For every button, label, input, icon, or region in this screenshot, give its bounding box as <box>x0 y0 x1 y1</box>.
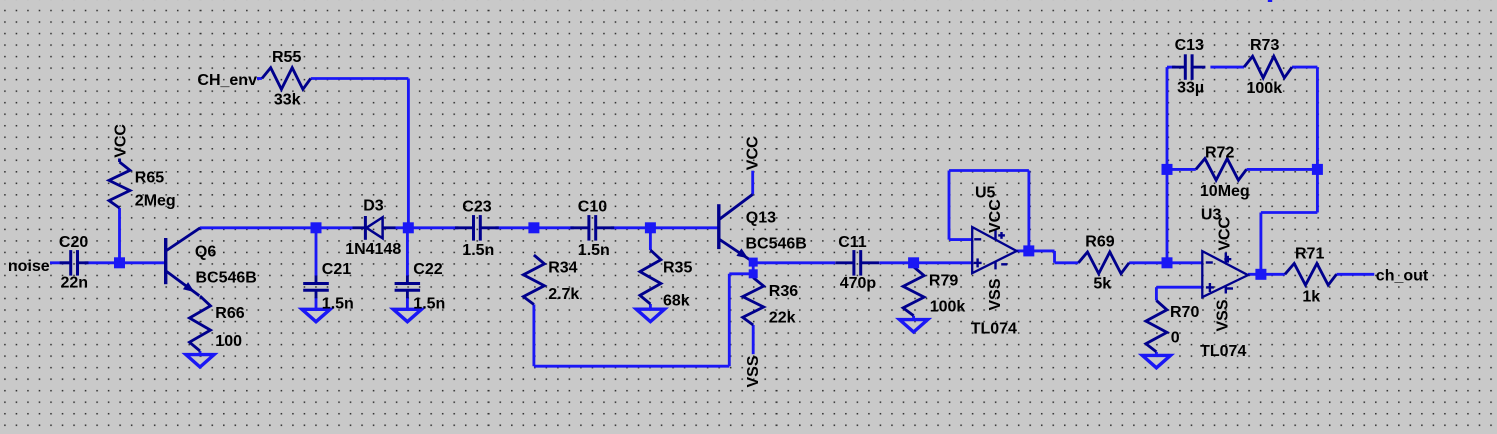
svg-text:1.5n: 1.5n <box>578 242 610 259</box>
wire <box>752 263 755 278</box>
node <box>908 257 919 268</box>
svg-text:R79: R79 <box>929 272 958 289</box>
svg-text:noise: noise <box>8 258 50 275</box>
svg-text:22k: 22k <box>769 310 796 327</box>
svg-text:TL074: TL074 <box>1200 343 1246 360</box>
svg-text:68k: 68k <box>663 293 690 310</box>
wire <box>407 79 410 228</box>
wire <box>118 208 121 263</box>
svg-text:R65: R65 <box>135 169 164 186</box>
svg-text:R36: R36 <box>769 283 798 300</box>
resistor R66 <box>190 296 211 351</box>
resistor R35 <box>640 250 661 304</box>
wire <box>200 226 316 229</box>
svg-text:100k: 100k <box>930 299 966 316</box>
svg-text:R72: R72 <box>1205 145 1234 162</box>
resistor R34 <box>523 255 544 305</box>
op-amp U5 <box>972 227 1016 273</box>
wire <box>534 226 574 229</box>
capacitor C13 <box>1172 66 1185 69</box>
svg-text:C13: C13 <box>1175 37 1204 54</box>
wire <box>1292 66 1317 69</box>
wire <box>406 228 409 276</box>
wire <box>315 297 318 309</box>
svg-text:C20: C20 <box>59 234 88 251</box>
svg-text:R34: R34 <box>548 259 577 276</box>
wire <box>408 226 458 229</box>
wire <box>1210 66 1244 69</box>
capacitor C22 <box>406 276 409 284</box>
node <box>528 222 539 233</box>
svg-text:1.5n: 1.5n <box>462 242 494 259</box>
svg-text:1.5n: 1.5n <box>322 296 354 313</box>
capacitor C10 <box>570 226 589 229</box>
svg-text:1N4148: 1N4148 <box>345 241 401 258</box>
svg-text:R35: R35 <box>663 260 692 277</box>
wire <box>1316 169 1319 212</box>
transistor Q6 <box>164 238 167 284</box>
resistor R72 <box>1196 159 1247 181</box>
resistor R70 <box>1146 301 1167 352</box>
svg-text:2.7k: 2.7k <box>548 286 579 303</box>
wire <box>1155 287 1158 300</box>
svg-text:R69: R69 <box>1085 234 1114 251</box>
svg-text:BC546B: BC546B <box>746 236 807 253</box>
wire <box>1055 261 1079 264</box>
svg-text:R55: R55 <box>272 49 301 66</box>
wire <box>1247 168 1318 171</box>
svg-text:R71: R71 <box>1295 245 1324 262</box>
wire <box>311 77 409 80</box>
resistor R69 <box>1078 252 1129 274</box>
wire <box>729 272 753 275</box>
svg-text:ch_out: ch_out <box>1376 268 1429 285</box>
transistor Q13 <box>717 204 720 249</box>
op-amp U3 <box>1202 251 1248 297</box>
diode D3 <box>353 226 366 229</box>
svg-text:100: 100 <box>215 333 242 350</box>
svg-text:U5: U5 <box>975 185 996 202</box>
wire <box>611 226 651 229</box>
node <box>749 258 758 267</box>
svg-text:470p: 470p <box>840 275 877 292</box>
capacitor C21 <box>315 276 318 284</box>
svg-text:Q6: Q6 <box>195 244 216 261</box>
wire <box>1053 251 1056 263</box>
wire <box>495 226 534 229</box>
wire <box>257 77 262 80</box>
svg-text:22n: 22n <box>61 274 89 291</box>
svg-text:100k: 100k <box>1247 80 1283 97</box>
wire <box>1166 169 1169 262</box>
wire <box>1259 213 1262 275</box>
svg-text:C11: C11 <box>838 234 867 251</box>
svg-text:Q13: Q13 <box>746 210 776 227</box>
node <box>403 222 414 233</box>
wire <box>1017 249 1055 252</box>
svg-text:VCC: VCC <box>987 199 1004 233</box>
resistor R65 <box>118 159 121 163</box>
svg-text:5k: 5k <box>1093 275 1111 292</box>
wire <box>752 325 755 354</box>
svg-text:1.5n: 1.5n <box>413 296 445 313</box>
wire <box>315 228 318 276</box>
wire <box>1261 211 1318 214</box>
wire <box>406 297 409 309</box>
svg-text:C21: C21 <box>322 261 351 278</box>
svg-text:R66: R66 <box>215 305 244 322</box>
node <box>1162 164 1173 175</box>
svg-text:C10: C10 <box>578 199 607 216</box>
wire <box>199 351 202 355</box>
wire <box>751 171 754 195</box>
ground <box>393 309 421 321</box>
node <box>1162 257 1173 268</box>
svg-text:33µ: 33µ <box>1177 80 1204 97</box>
wire <box>396 226 409 229</box>
wire <box>1027 171 1030 251</box>
wire <box>1248 273 1285 276</box>
resistor R73 <box>1244 56 1292 78</box>
ground <box>900 320 928 332</box>
wire <box>949 238 972 241</box>
node <box>749 269 758 278</box>
wire <box>1316 67 1319 169</box>
wire <box>912 316 915 320</box>
wire <box>1155 352 1158 356</box>
wire <box>649 228 652 250</box>
resistor R79 <box>903 267 924 316</box>
wire <box>912 263 915 267</box>
ground <box>302 309 330 321</box>
capacitor C20 <box>60 261 71 264</box>
svg-text:VCC: VCC <box>745 136 762 170</box>
svg-text:R73: R73 <box>1250 37 1279 54</box>
ground <box>1142 355 1170 367</box>
wire <box>1129 261 1202 264</box>
wire <box>753 261 835 264</box>
wire <box>534 365 729 368</box>
resistor R55 <box>262 68 311 90</box>
svg-text:2Meg: 2Meg <box>135 193 176 210</box>
wire <box>50 261 71 264</box>
svg-text:1k: 1k <box>1302 289 1320 306</box>
svg-text:VCC: VCC <box>112 124 129 158</box>
svg-text:TL074: TL074 <box>971 321 1017 338</box>
ground <box>186 355 214 367</box>
wire <box>85 261 166 264</box>
node <box>114 257 125 268</box>
wire <box>316 226 353 229</box>
svg-text:VCC: VCC <box>1217 217 1234 251</box>
svg-text:33k: 33k <box>274 92 301 109</box>
wire <box>1337 273 1375 276</box>
wire <box>1166 67 1169 169</box>
resistor R36 <box>743 278 764 325</box>
svg-text:0: 0 <box>1171 329 1180 346</box>
svg-text:VSS: VSS <box>987 278 1004 310</box>
svg-text:10Meg: 10Meg <box>1200 183 1250 200</box>
wire <box>1156 286 1202 289</box>
svg-text:C22: C22 <box>413 261 442 278</box>
wire <box>1167 66 1175 69</box>
svg-text:D3: D3 <box>363 198 384 215</box>
svg-text:C23: C23 <box>462 199 491 216</box>
capacitor C11 <box>835 261 854 264</box>
capacitor C23 <box>455 226 474 229</box>
svg-text:VSS: VSS <box>745 355 762 387</box>
wire <box>948 171 951 240</box>
node <box>311 222 322 233</box>
svg-text:R70: R70 <box>1170 304 1199 321</box>
wire <box>949 169 1029 172</box>
svg-text:VSS: VSS <box>1215 299 1232 331</box>
svg-text:CH_env: CH_env <box>197 72 257 89</box>
wire <box>532 305 535 367</box>
wire <box>1167 168 1196 171</box>
wire <box>879 261 972 264</box>
resistor R71 <box>1285 264 1337 286</box>
svg-text:BC546B: BC546B <box>196 269 257 286</box>
node <box>1023 245 1034 256</box>
ground <box>636 309 664 321</box>
wire <box>649 304 652 309</box>
wire <box>650 226 718 229</box>
wire <box>728 274 731 366</box>
node <box>645 222 656 233</box>
node <box>1312 164 1323 175</box>
node <box>1255 269 1266 280</box>
wire <box>1268 0 1272 2</box>
